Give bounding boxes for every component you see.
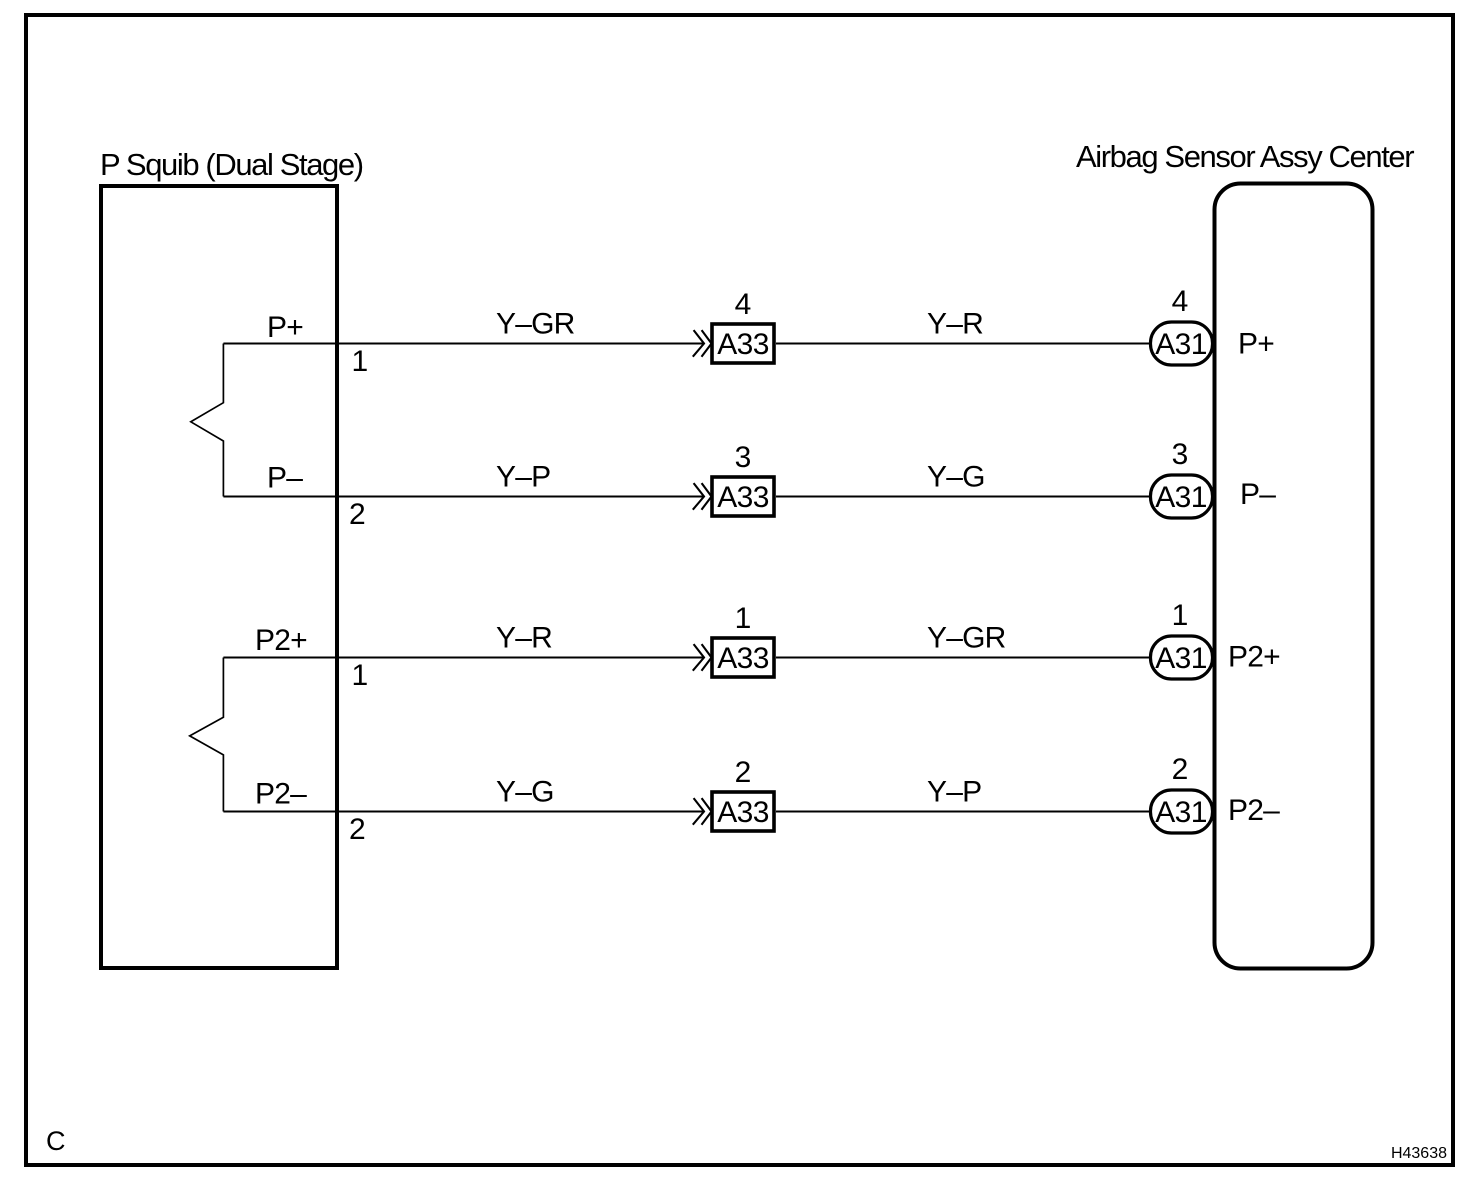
svg-text:A33: A33 bbox=[717, 328, 769, 361]
svg-text:Y–GR: Y–GR bbox=[927, 622, 1006, 655]
wire right segment row 4 bbox=[776, 811, 1151, 813]
svg-text:Y–GR: Y–GR bbox=[496, 308, 575, 341]
svg-text:A33: A33 bbox=[717, 481, 769, 514]
svg-text:Y–R: Y–R bbox=[496, 622, 552, 655]
svg-text:P2+: P2+ bbox=[1228, 641, 1280, 674]
squib element 1 (P stage) bbox=[191, 344, 224, 497]
svg-text:A33: A33 bbox=[717, 642, 769, 675]
svg-text:A31: A31 bbox=[1155, 328, 1207, 361]
svg-text:Y–R: Y–R bbox=[927, 308, 983, 341]
wire left segment row 3 bbox=[223, 657, 704, 659]
svg-text:Y–G: Y–G bbox=[496, 776, 554, 809]
connector A33 row 2 bbox=[712, 477, 774, 516]
connector A31 row 2 bbox=[1151, 475, 1213, 518]
svg-text:P2–: P2– bbox=[255, 778, 307, 811]
wire right segment row 1 bbox=[776, 343, 1151, 345]
wire right segment row 3 bbox=[776, 657, 1151, 659]
svg-text:1: 1 bbox=[1172, 599, 1189, 632]
svg-text:Y–P: Y–P bbox=[496, 461, 550, 494]
connector A33 row 1 bbox=[712, 324, 774, 363]
svg-text:P Squib (Dual Stage): P Squib (Dual Stage) bbox=[100, 147, 363, 182]
wire row 2: P- line (first squib) bbox=[223, 438, 1276, 531]
svg-text:2: 2 bbox=[349, 813, 366, 846]
wire right segment row 2 bbox=[776, 496, 1151, 498]
svg-text:1: 1 bbox=[352, 659, 369, 692]
svg-text:Airbag Sensor Assy Center: Airbag Sensor Assy Center bbox=[1076, 139, 1414, 174]
wire left segment row 2 bbox=[223, 496, 704, 498]
svg-text:P2–: P2– bbox=[1228, 794, 1280, 827]
svg-text:Y–G: Y–G bbox=[927, 461, 985, 494]
connector A31 row 1 bbox=[1151, 322, 1213, 365]
svg-text:3: 3 bbox=[1172, 438, 1189, 471]
svg-text:P+: P+ bbox=[267, 311, 303, 344]
svg-text:H43638: H43638 bbox=[1391, 1145, 1447, 1162]
svg-text:3: 3 bbox=[735, 441, 752, 474]
svg-text:1: 1 bbox=[735, 602, 752, 635]
P Squib (Dual Stage) block bbox=[101, 186, 337, 968]
svg-text:P+: P+ bbox=[1238, 328, 1274, 361]
chevron splice marks row 1 bbox=[693, 330, 704, 357]
wire left segment row 4 bbox=[223, 811, 704, 813]
connector A33 row 4 bbox=[712, 792, 774, 831]
svg-text:P2+: P2+ bbox=[255, 624, 307, 657]
svg-text:Y–P: Y–P bbox=[927, 776, 981, 809]
squib element 2 (P2 stage) bbox=[190, 658, 224, 812]
svg-text:P–: P– bbox=[1240, 478, 1276, 511]
wire row 4: P2- line (second squib) bbox=[223, 753, 1280, 846]
svg-text:A31: A31 bbox=[1155, 481, 1207, 514]
svg-text:A31: A31 bbox=[1155, 642, 1207, 675]
svg-text:4: 4 bbox=[735, 288, 752, 321]
wire row 3: P2+ line (second squib) bbox=[223, 599, 1280, 692]
svg-text:4: 4 bbox=[1172, 285, 1189, 318]
svg-text:P–: P– bbox=[267, 462, 303, 495]
chevron splice marks row 3 bbox=[693, 644, 704, 671]
connector A31 row 3 bbox=[1151, 636, 1213, 679]
connector A31 row 4 bbox=[1151, 790, 1213, 833]
svg-text:A33: A33 bbox=[717, 796, 769, 829]
svg-text:2: 2 bbox=[349, 498, 366, 531]
wire row 1: P+ line (first squib) bbox=[223, 285, 1274, 378]
svg-text:A31: A31 bbox=[1155, 796, 1207, 829]
svg-text:C: C bbox=[46, 1126, 66, 1156]
svg-text:1: 1 bbox=[352, 345, 369, 378]
chevron splice marks row 4 bbox=[693, 798, 704, 825]
Airbag Sensor Assy Center block (connector A31 side) bbox=[1215, 184, 1373, 969]
wire left segment row 1 bbox=[223, 343, 704, 345]
svg-text:2: 2 bbox=[735, 756, 752, 789]
chevron splice marks row 2 bbox=[693, 483, 704, 510]
connector A33 row 3 bbox=[712, 638, 774, 677]
svg-text:2: 2 bbox=[1172, 753, 1189, 786]
